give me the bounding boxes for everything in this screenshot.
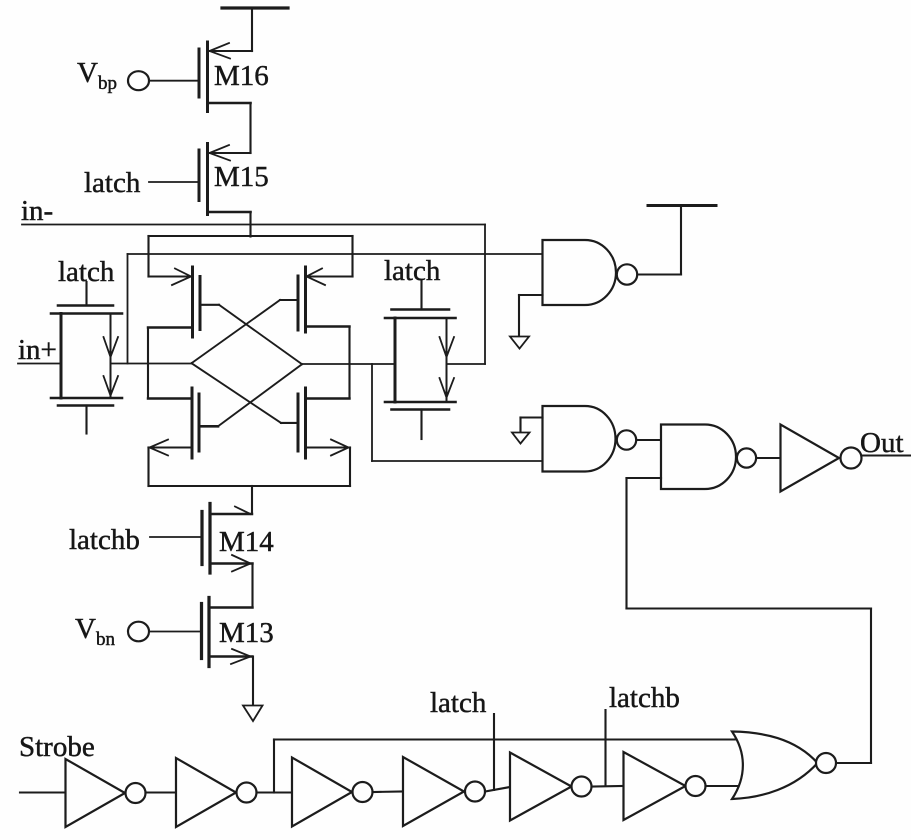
wire right drain rail: [348, 327, 350, 399]
bubble U4: [841, 448, 862, 469]
node latch top rail: [149, 236, 353, 277]
wire U3 lower input stub: [627, 477, 662, 479]
wire node out+ to NAND U2 input: [372, 364, 543, 461]
wire U7 to U8: [373, 790, 404, 793]
bubble U8: [465, 782, 485, 802]
bubble U2: [617, 430, 636, 449]
wire Strobe input: [20, 791, 66, 793]
wire Vbp gate: [149, 80, 199, 82]
wire latchb tap: [604, 710, 606, 786]
svg-text:latch: latch: [430, 687, 487, 719]
svg-text:bp: bp: [98, 73, 117, 94]
svg-text:in+: in+: [18, 334, 57, 366]
wire node out+ horizontal: [302, 363, 395, 365]
terminal circle Vbn: [128, 622, 149, 642]
transistor NMOS right of latch: [281, 388, 350, 458]
wire U9 to U10: [592, 785, 624, 788]
wire latchb gate M14: [150, 536, 202, 538]
wire M13 source to ground: [252, 657, 254, 706]
wire M14 to M13: [251, 564, 253, 608]
transistor M13: [202, 598, 253, 667]
inverter U5: [66, 759, 126, 827]
svg-text:M15: M15: [214, 161, 269, 193]
transistor M16: [199, 42, 252, 112]
wire pass gate to node out-: [111, 363, 192, 365]
wire U10 to NOR: [706, 785, 739, 787]
wire feedback from NOR to U3: [627, 478, 872, 763]
svg-text:V: V: [77, 57, 98, 89]
bubble U3: [737, 448, 756, 467]
wire tap to NOR upper input: [274, 740, 736, 793]
svg-text:bn: bn: [96, 629, 116, 650]
wire Vbn gate M13: [149, 631, 202, 633]
svg-text:latch: latch: [384, 255, 441, 287]
svg-text:Out: Out: [860, 427, 904, 459]
bubble U10: [686, 776, 706, 796]
inverter U9: [510, 753, 572, 821]
wire latch gate M15: [149, 181, 199, 183]
inverter U10: [624, 752, 686, 820]
svg-text:latch: latch: [84, 167, 141, 199]
inverter U8: [403, 757, 464, 826]
wire U1 output to pull-up: [638, 206, 682, 275]
NAND gate U2: [543, 406, 616, 472]
bubble U1: [617, 264, 637, 284]
wire in- vertical drop: [484, 225, 486, 365]
transistor PMOS right of latch: [280, 267, 353, 332]
svg-text:M14: M14: [219, 526, 274, 558]
wire U6 to U7: [257, 791, 293, 793]
NAND gate U3: [661, 425, 736, 490]
wire cross-couple diagonal 4: [218, 364, 302, 426]
svg-text:M16: M16: [214, 60, 269, 92]
transistor M15: [199, 144, 251, 215]
wire latch tap: [493, 714, 495, 790]
wire U8 to U9: [485, 787, 510, 792]
wire node out- to NAND U1 input: [128, 254, 543, 364]
node latch bottom rail: [149, 448, 351, 515]
terminal circle Vbp: [128, 71, 149, 90]
label Vbn: [75, 613, 116, 650]
svg-text:V: V: [75, 613, 96, 645]
ground (U1 input): [510, 337, 529, 349]
svg-text:latchb: latchb: [69, 524, 140, 556]
transistor NMOS left of latch: [148, 388, 218, 458]
svg-text:Strobe: Strobe: [19, 731, 95, 763]
wire U2 output to U3: [637, 439, 662, 441]
wire Out: [862, 454, 911, 456]
wire cross-couple diagonal 1: [219, 305, 302, 364]
svg-text:M13: M13: [219, 617, 274, 649]
pass gate right (latch switch): [385, 281, 456, 439]
wire cross-couple diagonal 3: [192, 363, 282, 423]
bubble U6: [237, 783, 257, 803]
wire in- horizontal: [22, 224, 485, 226]
inverter U7: [292, 758, 352, 827]
wire M16 drain to M15 source: [249, 103, 251, 153]
wire U1 lower input stub: [519, 295, 543, 337]
ground (U2 input): [512, 433, 530, 444]
bubble U11: [816, 753, 836, 773]
transistor PMOS left of latch: [148, 267, 219, 337]
bubble U5: [126, 783, 146, 803]
wire M15 drain to latch top: [249, 212, 251, 237]
wire cross-couple diagonal 2: [192, 300, 281, 363]
wire in+ to pass gate: [18, 363, 61, 365]
wire right pass gate to in-: [447, 363, 486, 365]
wire U3 output to inverter: [757, 457, 781, 459]
power rail VDD top: [222, 8, 288, 51]
NAND gate U1: [543, 240, 616, 305]
wire U5 to U6: [146, 791, 177, 793]
svg-text:in-: in-: [21, 195, 53, 227]
ground (M13 source): [243, 706, 263, 722]
wire left drain rail: [147, 328, 149, 399]
pass gate left (latch switch): [51, 282, 122, 434]
bubble U9: [572, 777, 592, 797]
power rail VDD right: [648, 204, 716, 207]
label Vbp: [77, 57, 117, 94]
transistor M14: [202, 504, 253, 574]
NOR gate U11: [732, 732, 818, 800]
inverter U6: [176, 758, 236, 827]
bubble U7: [353, 782, 373, 802]
svg-text:latchb: latchb: [609, 682, 680, 714]
wire U2 upper input stub: [521, 418, 543, 433]
inverter U4 (output buffer): [781, 425, 840, 492]
